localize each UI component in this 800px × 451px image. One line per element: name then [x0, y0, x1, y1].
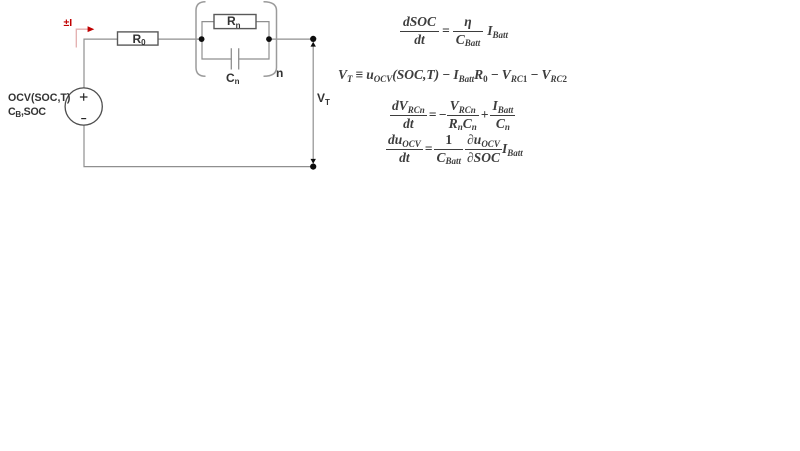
wire: R0 right to RC left node: [158, 38, 202, 40]
right bracket of RC group: [264, 2, 277, 77]
wire: RC right node to VT top node: [269, 38, 313, 40]
VT measurement arrow line: [312, 46, 314, 161]
wire: bottom rail from source to VT bottom node: [84, 125, 313, 167]
VT arrowhead down: [311, 159, 316, 164]
voltage source - sign: [81, 118, 86, 120]
capacitor Cn plates: [231, 48, 238, 69]
label OCV(SOC,T): [8, 93, 70, 105]
label Rn: [227, 15, 241, 28]
equation 4: duOCV/dt = 1/CBatt dOCV/dSOC IBatt: [386, 130, 523, 168]
equation 2: VT = uOCV(SOC,T) - IBatt R0 - VRC1 - VRC2: [338, 66, 567, 84]
node T+: top terminal dot: [310, 36, 316, 42]
node T-: bottom terminal dot: [310, 164, 316, 170]
current arrowhead (red): [88, 26, 95, 32]
node A: left junction dot: [199, 36, 205, 42]
voltage source + sign: [80, 93, 88, 101]
label VT: [317, 92, 330, 105]
VT arrowhead up: [311, 42, 316, 47]
RC branch: top loop wires around Rn: [202, 22, 269, 39]
RC branch: bottom loop wires around Cn: [202, 39, 269, 59]
label CB,SOC: [8, 107, 46, 119]
label n: [276, 67, 283, 80]
left bracket of RC group: [196, 2, 206, 77]
label Cn: [226, 72, 240, 85]
equation 1: dSOC/dt = eta/CBatt IBatt: [400, 12, 508, 50]
label R0: [133, 33, 146, 46]
equation 3: dVRCn/dt = -VRCn/(RnCn) + IBatt/Cn: [390, 96, 515, 134]
label ±I (red): [64, 18, 73, 30]
wire: left vertical from source top to top rail: [84, 39, 118, 88]
current arrow elbow (light red): [76, 29, 88, 47]
node B: right junction dot: [266, 36, 272, 42]
resistor Rn box: [214, 15, 256, 29]
voltage source OCV circle: [65, 88, 102, 125]
resistor R0 box: [118, 32, 159, 45]
